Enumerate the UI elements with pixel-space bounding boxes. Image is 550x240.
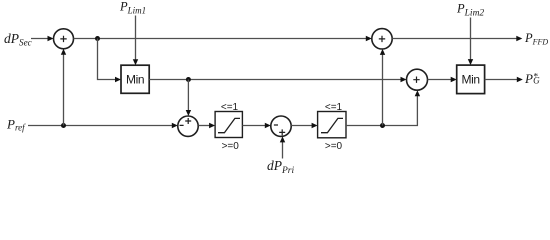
wire dot D up into S2 bottom bbox=[380, 49, 385, 126]
junction dot D on bottom rail bbox=[380, 123, 385, 128]
label P_Lim2 bbox=[456, 2, 484, 19]
label <=1 of SAT2 bbox=[325, 102, 343, 113]
summing junction S4 bbox=[271, 116, 291, 136]
svg-text:Min: Min bbox=[461, 73, 479, 87]
wire dP_Sec to summer S1 bbox=[31, 36, 54, 41]
wire SAT2 right to corner at x417 bbox=[346, 90, 420, 125]
wire S4 to SAT2 bbox=[291, 123, 317, 128]
svg-text:>=0: >=0 bbox=[222, 141, 240, 152]
wire mid rail Min1 to S5 bbox=[149, 77, 406, 82]
input label P_ref bbox=[6, 117, 26, 133]
input label dP_Pri bbox=[267, 158, 295, 176]
junction dot C on P_ref wire bbox=[61, 123, 66, 128]
wire P_ref to S3 bbox=[28, 123, 178, 128]
summing junction S3 bbox=[178, 116, 198, 136]
wire dot C up into S1 bottom bbox=[61, 49, 66, 126]
svg-text:Min: Min bbox=[126, 73, 144, 87]
block SAT1 saturation bbox=[215, 112, 242, 138]
label >=0 of SAT2 bbox=[325, 141, 343, 152]
block Min1 bbox=[121, 65, 149, 93]
wire P_Lim2 down into Min2 top bbox=[468, 18, 473, 66]
label P_Lim1 bbox=[119, 0, 146, 16]
wire top rail S1 to S2 bbox=[74, 36, 372, 41]
wire P_Lim1 down into Min1 top bbox=[133, 16, 138, 66]
summing junction S1 bbox=[54, 29, 74, 49]
wire dP_Pri up into S4 bottom bbox=[280, 136, 285, 158]
svg-text:>=0: >=0 bbox=[325, 141, 343, 152]
junction dot A on top rail bbox=[95, 36, 100, 41]
wire dot B down into S3 top bbox=[186, 80, 191, 117]
wire S2 to P_FFD output bbox=[392, 36, 522, 41]
input label dP_Sec bbox=[4, 31, 32, 47]
summing junction S5 bbox=[407, 69, 428, 90]
wire Min2 to P_G output bbox=[485, 77, 523, 82]
wire S5 to Min2 bbox=[428, 77, 457, 82]
junction dot B on mid rail bbox=[186, 77, 191, 82]
label <=1 of SAT1 bbox=[221, 102, 239, 113]
label >=0 of SAT1 bbox=[222, 141, 240, 152]
wire S3 to SAT1 bbox=[198, 123, 215, 128]
svg-text:P*G: P*G bbox=[524, 71, 540, 86]
block Min2 bbox=[457, 65, 485, 94]
summing junction S2 bbox=[372, 29, 392, 49]
block SAT2 saturation bbox=[318, 112, 346, 138]
output label P_G_star bbox=[524, 71, 540, 86]
wire SAT1 to S4 bbox=[242, 123, 270, 128]
wire dot A down and right into Min1 bbox=[98, 39, 122, 83]
output label P_FFD bbox=[524, 31, 548, 47]
